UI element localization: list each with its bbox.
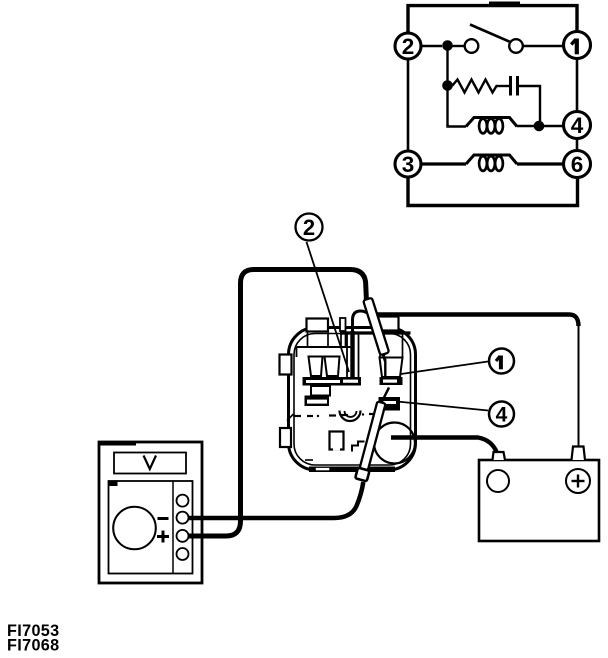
connector top tab right <box>378 317 399 331</box>
bottom left small mark <box>305 459 313 461</box>
multimeter body <box>99 442 202 583</box>
cavity trapezoid a <box>309 357 323 377</box>
terminal 6 <box>564 151 591 178</box>
callout circle 2 <box>296 214 323 241</box>
battery positive mark <box>566 469 590 493</box>
wire meter minus lead to bottom probe <box>189 482 364 518</box>
mid white block <box>311 386 330 396</box>
connector inner shelf line left <box>297 346 353 348</box>
junction dot at switch feed <box>442 40 453 51</box>
jack plus <box>177 530 189 542</box>
dash-dot parting line <box>295 414 378 416</box>
connector top rib <box>340 318 346 331</box>
wire connector to battery positive (top feed) <box>374 315 579 327</box>
switch lever <box>470 25 512 43</box>
junction dot at resistor <box>442 80 453 91</box>
cavity trapezoid right <box>380 358 403 378</box>
wire coil L1 to 4 <box>517 125 564 127</box>
terminal 3 <box>395 151 421 177</box>
plus label <box>157 531 169 543</box>
capacitor C <box>511 76 518 96</box>
switch contact left <box>465 39 479 53</box>
terminal 2 <box>395 33 421 59</box>
bottom edge thick segment <box>309 467 395 473</box>
battery body <box>479 460 599 541</box>
connector inner shelf line right <box>340 331 411 334</box>
wire 3 to coil L2 <box>421 162 466 165</box>
minus label <box>158 517 169 520</box>
wire dot to contact <box>452 45 465 47</box>
callout circle 4 <box>489 402 514 427</box>
tick mark left edge <box>287 414 294 421</box>
battery post negative <box>493 452 506 460</box>
wire junction down <box>446 46 448 126</box>
wire meter plus lead big loop to top probe <box>189 270 367 537</box>
selector dial <box>113 507 156 550</box>
svg-text:4: 4 <box>571 113 584 138</box>
jack 4 <box>177 548 189 560</box>
terminal 1 <box>564 32 591 59</box>
terminal bar row A left (pin 2 slot) <box>303 377 362 386</box>
connector inner contour <box>294 334 411 466</box>
svg-text:6: 6 <box>571 152 584 177</box>
connector body outer shell <box>289 328 416 471</box>
cavity upper walls <box>308 331 403 357</box>
svg-text:FI7068: FI7068 <box>7 637 60 655</box>
wire vertical to battery positive post <box>578 324 580 448</box>
cavity wall right <box>358 334 360 377</box>
connector left lug upper <box>280 355 292 375</box>
wire resistor to capacitor <box>498 85 509 87</box>
svg-text:2: 2 <box>402 34 415 59</box>
jack minus <box>177 512 189 524</box>
smile arc detail <box>340 411 361 422</box>
wire switch to 1 <box>523 45 564 47</box>
jack column divider <box>172 481 174 574</box>
svg-text:4: 4 <box>496 404 508 427</box>
probe tip upper <box>383 354 385 361</box>
terminal bar row A right (pin 1 slot) <box>380 377 403 385</box>
leader line to pin 1 <box>401 362 488 375</box>
svg-text:2: 2 <box>303 215 315 240</box>
multimeter display <box>114 453 186 474</box>
connector left lug lower <box>280 428 291 447</box>
step detail <box>352 442 365 452</box>
wire corner to coil L1 <box>448 124 467 127</box>
wire 2 to switch <box>421 45 442 48</box>
multimeter panel <box>109 481 193 574</box>
terminal 4 <box>564 112 591 139</box>
terminal bar row B left <box>305 396 330 407</box>
cavity trapezoid b <box>325 357 340 377</box>
battery post positive <box>572 447 586 461</box>
test probe upper (to pin 2) <box>363 298 389 356</box>
junction dot coil/cap <box>534 121 545 132</box>
wire connector to battery negative <box>391 438 497 454</box>
wire coil L2 to 6 <box>517 162 564 165</box>
round boss lower right <box>374 423 415 464</box>
callout circle 1 <box>489 349 514 374</box>
meter corner blotches <box>99 442 136 446</box>
probe tip lower <box>382 388 390 403</box>
connector left shelf step <box>296 347 298 357</box>
terminal bar row B right (pin 4 slot) <box>379 397 401 411</box>
leader line to pin 2 <box>307 242 350 372</box>
relay box border <box>408 2 578 206</box>
cavity wall left <box>346 334 348 377</box>
resistor R <box>452 80 498 93</box>
test probe lower (to pin 4) <box>355 401 387 481</box>
inductor L1 (relay coil) <box>466 118 517 134</box>
volts symbol <box>144 456 157 470</box>
wire capacitor to coil junction <box>519 86 540 124</box>
connector top tab left <box>307 319 329 332</box>
switch contact right <box>509 39 523 53</box>
jack 1 <box>177 495 189 507</box>
battery negative mark <box>487 470 509 492</box>
leader line to pin 4 <box>397 402 488 411</box>
svg-text:3: 3 <box>402 152 415 177</box>
inductor L2 (relay coil) <box>466 155 517 171</box>
jumper wire arch at pin 2 <box>353 311 372 378</box>
house detail <box>330 432 344 450</box>
